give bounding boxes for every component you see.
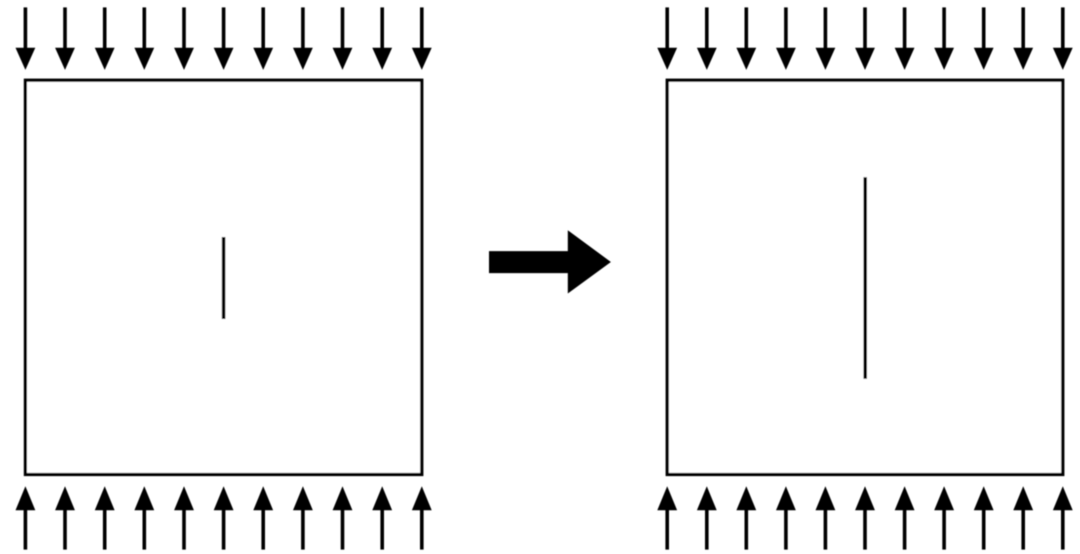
top load arrow 1 (left plate) [16,7,36,70]
top load arrow 1 (right plate) [657,7,677,70]
bottom load arrow 2 (right plate) [697,486,717,549]
grown long crack (right plate) [863,177,867,379]
top load arrow 4 (right plate) [776,7,796,70]
bottom load arrow 11 (right plate) [1053,486,1073,549]
bottom load arrow 5 (left plate) [174,486,194,549]
bottom load arrow 3 (left plate) [95,486,115,549]
bottom load arrow 1 (left plate) [16,486,36,549]
top load arrow 10 (left plate) [372,7,392,70]
top load arrow 11 (right plate) [1053,7,1073,70]
bottom load arrow 2 (left plate) [55,486,75,549]
top load arrow 2 (left plate) [55,7,75,70]
bottom load arrow 9 (right plate) [974,486,994,549]
bottom load arrow 6 (right plate) [855,486,875,549]
bottom load arrow 10 (right plate) [1013,486,1033,549]
bottom load arrow 6 (left plate) [214,486,234,549]
top load arrow 8 (left plate) [293,7,313,70]
bottom load arrow 9 (left plate) [333,486,353,549]
bottom load arrow 8 (right plate) [934,486,954,549]
top load arrow 7 (left plate) [253,7,273,70]
bottom load arrow 8 (left plate) [293,486,313,549]
bottom load arrow 10 (left plate) [372,486,392,549]
bottom load arrow 11 (left plate) [412,486,432,549]
bottom load arrow 7 (right plate) [895,486,915,549]
top load arrow 2 (right plate) [697,7,717,70]
top load arrow 5 (left plate) [174,7,194,70]
transition arrow (crack growth) [489,230,611,293]
top load arrow 3 (right plate) [736,7,756,70]
top load arrow 3 (left plate) [95,7,115,70]
top load arrow 9 (right plate) [974,7,994,70]
bottom load arrow 3 (right plate) [736,486,756,549]
left plate (square specimen) [25,80,421,474]
top load arrow 10 (right plate) [1013,7,1033,70]
bottom load arrow 4 (left plate) [134,486,154,549]
top load arrow 5 (right plate) [816,7,836,70]
bottom load arrow 1 (right plate) [657,486,677,549]
top load arrow 7 (right plate) [895,7,915,70]
top load arrow 6 (left plate) [214,7,234,70]
top load arrow 11 (left plate) [412,7,432,70]
initial short crack (left plate) [222,237,226,319]
bottom load arrow 5 (right plate) [816,486,836,549]
top load arrow 8 (right plate) [934,7,954,70]
top load arrow 6 (right plate) [855,7,875,70]
top load arrow 9 (left plate) [333,7,353,70]
bottom load arrow 4 (right plate) [776,486,796,549]
top load arrow 4 (left plate) [134,7,154,70]
right plate (square specimen) [667,80,1063,474]
bottom load arrow 7 (left plate) [253,486,273,549]
